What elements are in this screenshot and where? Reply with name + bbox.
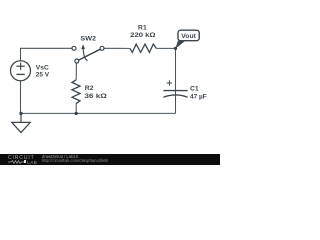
svg-text:220 kΩ: 220 kΩ — [130, 32, 156, 39]
footer url text — [42, 158, 108, 163]
junction dot ground / bottom rail — [19, 112, 22, 115]
switch SW2 blade — [79, 49, 100, 60]
switch SW2 left throw terminal — [72, 46, 76, 50]
svg-text:C1: C1 — [190, 86, 199, 93]
wire: resistor R2 to bottom rail — [75, 103, 77, 113]
resistor R2 zigzag — [72, 80, 80, 104]
node Vout label box — [178, 30, 199, 41]
footer CircuitLab logo word CIRCUIT — [8, 156, 35, 160]
svg-text:25 V: 25 V — [36, 72, 50, 79]
switch SW2 right throw terminal — [100, 46, 104, 50]
ground stub wire — [20, 113, 22, 122]
footer CircuitLab logo word LAB — [27, 160, 37, 165]
svg-text:VsC: VsC — [36, 65, 49, 72]
wire: switch right throw to R1 — [104, 47, 130, 49]
switch SW2 arrowhead — [81, 44, 85, 49]
wire bottom rail — [21, 112, 176, 114]
node Vout pointer — [175, 41, 185, 49]
svg-text:Vout: Vout — [181, 33, 196, 40]
wire: capacitor C1 bottom to bottom rail — [175, 91, 177, 113]
capacitor C1 top plate — [163, 90, 187, 92]
footer CircuitLab logo zigzag — [8, 160, 24, 164]
svg-text:47 µF: 47 µF — [190, 93, 207, 100]
voltage source minus sign — [16, 73, 24, 75]
svg-text:R2: R2 — [85, 85, 94, 92]
node Vout junction dot — [174, 47, 177, 50]
capacitor C1 bottom curved plate — [163, 95, 187, 97]
resistor R1 zigzag — [130, 44, 156, 52]
footer title text — [42, 154, 78, 159]
svg-text:R1: R1 — [138, 24, 147, 31]
wire top-left: source top to switch left throw — [21, 48, 72, 60]
svg-text:36 kΩ: 36 kΩ — [84, 93, 107, 100]
wire: R1 to Vout node — [156, 47, 175, 49]
ground symbol triangle — [12, 122, 30, 132]
switch SW2 pole terminal — [75, 59, 79, 63]
voltage source plus sign — [16, 63, 24, 70]
svg-text:SW2: SW2 — [80, 36, 96, 43]
capacitor C1 polarity plus — [167, 80, 173, 85]
footer bar — [0, 154, 220, 165]
junction dot R2 / bottom rail — [75, 112, 78, 115]
switch SW2 actuator arrow — [83, 49, 87, 61]
footer CircuitLab logo bright mark — [24, 160, 27, 163]
wire: source bottom to bottom rail — [20, 81, 22, 114]
wire: switch pole down to resistor R2 — [75, 63, 77, 80]
voltage source VsC circle — [11, 61, 31, 81]
wire: node down to capacitor C1 top — [175, 48, 177, 90]
